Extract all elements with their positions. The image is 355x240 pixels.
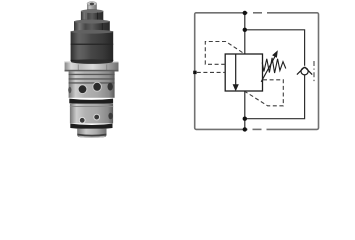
valve photo: adjustment screw cap: [87, 2, 97, 11]
pilot dashed path upper-left loop: [205, 42, 244, 65]
wire: top branch to check valve: [245, 30, 305, 66]
wire: main vertical line below valve: [244, 91, 246, 129]
dash-dot reference line right side: [313, 61, 315, 84]
spring: [262, 58, 286, 73]
flow arrow inside valve box: [233, 54, 239, 91]
port marker square (vent port): [193, 71, 196, 74]
valve photo: upper cartridge body with ring grooves and cross holes: [68, 71, 114, 97]
check valve seat: [297, 67, 312, 75]
valve photo: upper dark cylinder: [71, 30, 114, 62]
valve photo: lower body with cross holes: [70, 104, 113, 124]
outer envelope rectangle: [195, 12, 319, 131]
relief valve body box: [225, 54, 262, 91]
junction dot upper branch: [243, 28, 247, 32]
valve photo: O-ring 1: [69, 99, 113, 105]
wire: bottom branch from check valve: [245, 75, 305, 119]
valve photo: adjustment hex body: [74, 20, 110, 32]
valve photo: O-ring 2: [70, 124, 112, 130]
pilot dashed line from vent port: [197, 71, 225, 73]
check valve ball: [301, 68, 308, 75]
envelope dash segment top: [253, 12, 262, 14]
junction dot lower branch: [243, 117, 247, 121]
envelope dash segment bottom: [253, 128, 262, 130]
valve photo: hex flange: [65, 59, 119, 71]
junction dot bottom edge: [243, 127, 247, 131]
drain dashed path lower-right loop: [245, 80, 283, 106]
adjustment arrow through spring: [261, 50, 278, 82]
valve photo: nose tip: [77, 129, 106, 138]
wire: main vertical line above valve: [244, 13, 246, 54]
junction dot top edge: [243, 11, 247, 15]
valve photo: jam nut: [81, 9, 103, 21]
